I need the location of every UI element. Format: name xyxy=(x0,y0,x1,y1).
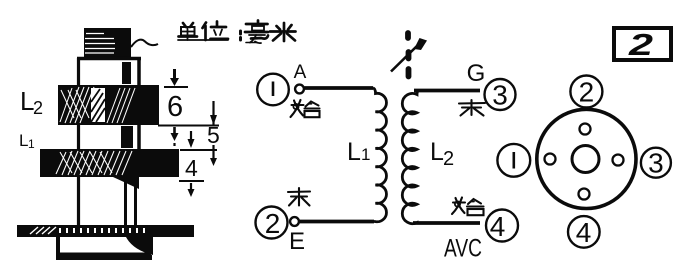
svg-text:3: 3 xyxy=(492,80,508,111)
svg-text:A: A xyxy=(294,62,307,83)
svg-text:AVC: AVC xyxy=(444,235,482,263)
svg-text:1: 1 xyxy=(361,145,370,164)
svg-text:L: L xyxy=(347,138,361,166)
svg-text:G: G xyxy=(467,60,486,87)
svg-text:2: 2 xyxy=(579,77,595,108)
svg-text:2: 2 xyxy=(265,208,281,239)
svg-text:E: E xyxy=(289,228,305,255)
svg-text:6: 6 xyxy=(167,91,183,123)
svg-text:4: 4 xyxy=(490,211,506,242)
svg-text:1: 1 xyxy=(28,137,35,151)
svg-text:3: 3 xyxy=(648,148,664,179)
svg-text:L: L xyxy=(430,138,444,166)
svg-text:5: 5 xyxy=(207,122,220,148)
svg-text:2: 2 xyxy=(443,148,454,170)
svg-text:2: 2 xyxy=(628,27,653,62)
svg-text:4: 4 xyxy=(576,217,592,248)
svg-text:4: 4 xyxy=(185,155,198,181)
svg-text:2: 2 xyxy=(33,98,43,118)
